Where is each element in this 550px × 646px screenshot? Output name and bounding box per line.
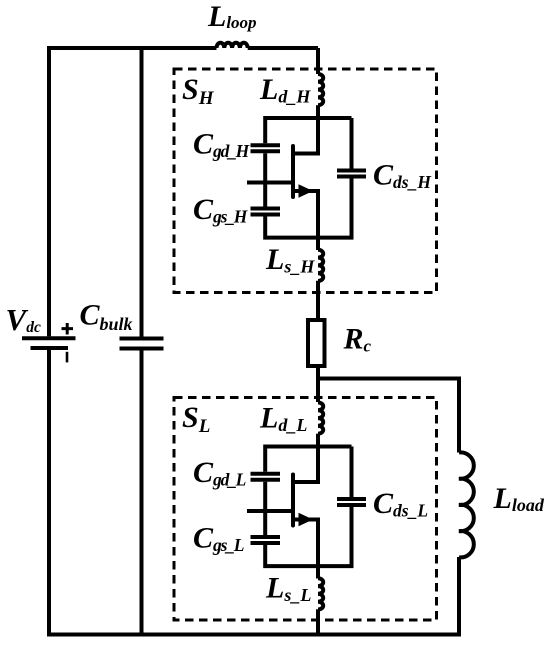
transistor Q_L xyxy=(247,447,318,567)
capacitor Cds_H xyxy=(337,169,366,179)
S_L dashed box xyxy=(174,398,437,621)
capacitor Cgs_L xyxy=(251,535,281,545)
capacitor Cgd_L xyxy=(251,472,281,482)
capacitor Cbulk xyxy=(120,337,164,351)
wire load branch drop xyxy=(457,377,461,453)
svg-text:Cds_L: Cds_L xyxy=(373,487,428,521)
svg-text:Lload: Lload xyxy=(493,482,545,515)
wire Ld_L to cell xyxy=(316,434,320,449)
capacitor Cgd_H xyxy=(251,143,281,153)
wire top bus xyxy=(47,46,217,50)
battery plus sign xyxy=(62,323,74,335)
svg-text:Lloop: Lloop xyxy=(207,0,257,33)
inductor Ld_H xyxy=(318,74,323,105)
wire L-cell frame xyxy=(263,447,353,569)
resistor Rc xyxy=(308,320,325,366)
transistor Q_H xyxy=(247,118,318,238)
svg-text:SH: SH xyxy=(182,73,215,109)
inductor L_loop xyxy=(217,43,248,48)
capacitor Cgs_H xyxy=(251,207,281,217)
svg-text:Cgd_H: Cgd_H xyxy=(193,128,251,162)
wire left rail xyxy=(47,46,51,637)
svg-text:Cgs_H: Cgs_H xyxy=(193,193,249,227)
svg-text:Ls_H: Ls_H xyxy=(265,243,315,277)
svg-text:Vdc: Vdc xyxy=(6,302,41,337)
inductor L_load xyxy=(459,452,474,557)
wire bottom bus xyxy=(47,633,459,637)
svg-text:Cds_H: Cds_H xyxy=(373,159,432,193)
wire switch node xyxy=(316,368,459,402)
wire H-cell frame xyxy=(263,118,353,240)
svg-text:Cgs_L: Cgs_L xyxy=(193,522,244,556)
svg-text:Cbulk: Cbulk xyxy=(80,299,133,335)
svg-text:Rc: Rc xyxy=(343,323,372,356)
svg-text:Cgd_L: Cgd_L xyxy=(193,456,246,490)
inductor Ld_L xyxy=(318,402,323,433)
battery minus tick xyxy=(66,352,69,363)
wire Ls_L stubs xyxy=(316,566,320,636)
svg-text:Ld_H: Ld_H xyxy=(259,73,311,107)
svg-text:SL: SL xyxy=(182,401,210,437)
S_H dashed box xyxy=(174,69,437,293)
wire Ld_H to cell xyxy=(316,105,320,120)
wire load branch bottom xyxy=(457,557,461,637)
battery Vdc plates xyxy=(22,336,76,350)
wire Ls_H stubs xyxy=(316,238,320,318)
wire top bus right segment xyxy=(248,46,318,50)
svg-text:Ld_L: Ld_L xyxy=(259,402,307,436)
wire main drop from top bus xyxy=(316,48,320,74)
capacitor Cds_L xyxy=(337,497,366,507)
inductor Ls_L xyxy=(318,578,323,609)
wire Cbulk branch xyxy=(140,46,144,637)
inductor Ls_H xyxy=(318,250,323,281)
svg-text:Ls_L: Ls_L xyxy=(265,572,311,606)
